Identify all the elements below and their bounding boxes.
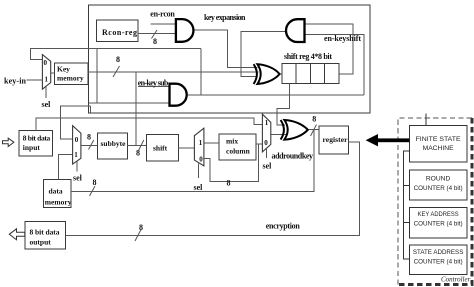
bus slash at mux M2 output bbox=[89, 140, 94, 150]
wire data memory to mux M2 input 1 bbox=[58, 154, 72, 179]
svg-text:Key: Key bbox=[57, 65, 70, 74]
svg-text:memory: memory bbox=[57, 74, 84, 83]
svg-text:8: 8 bbox=[139, 223, 143, 232]
gate AND U1 en-rcon bbox=[176, 19, 194, 42]
port arrow data output bbox=[9, 229, 24, 240]
block key address counter bbox=[409, 208, 466, 238]
svg-text:sel: sel bbox=[73, 174, 83, 183]
wire key-in to mux M1 bbox=[27, 79, 43, 81]
svg-text:register: register bbox=[323, 135, 349, 144]
key expansion outer box bbox=[89, 5, 371, 113]
svg-text:data: data bbox=[49, 187, 63, 196]
svg-text:en-key sub: en-key sub bbox=[138, 79, 169, 88]
wire mux M2 output to subbyte bbox=[81, 145, 98, 147]
svg-text:8: 8 bbox=[93, 178, 97, 187]
wire shift register output to AND U3 top input bbox=[305, 24, 354, 74]
wire XOR U5 output to register bbox=[308, 129, 319, 131]
svg-text:0: 0 bbox=[75, 136, 79, 144]
svg-text:COUNTER (4 bit): COUNTER (4 bit) bbox=[414, 258, 463, 265]
svg-text:8: 8 bbox=[312, 115, 316, 124]
svg-text:mix: mix bbox=[226, 137, 238, 146]
svg-text:Rcon-reg: Rcon-reg bbox=[102, 28, 137, 37]
wire shift to mux M3 bbox=[178, 147, 194, 149]
block subbyte bbox=[98, 133, 128, 159]
block mix column bbox=[219, 134, 256, 160]
svg-text:FINITE STATE: FINITE STATE bbox=[416, 136, 462, 143]
wire feedback rail to mux M1 input 0 bbox=[31, 49, 201, 60]
svg-text:key-in: key-in bbox=[4, 77, 27, 86]
gate AND U3 en-keyshift mirrored bbox=[286, 19, 304, 42]
wire controller bus stub round counter bbox=[404, 185, 410, 187]
controller dashed box thin edges bbox=[398, 118, 472, 285]
svg-text:KEY ADDRESS: KEY ADDRESS bbox=[418, 211, 460, 218]
svg-text:0: 0 bbox=[264, 139, 268, 147]
port 8 bit data input bbox=[19, 130, 52, 156]
svg-text:shift: shift bbox=[153, 144, 168, 153]
gate XOR U4 key schedule bbox=[254, 64, 280, 84]
wire key memory output to XOR U4 bbox=[88, 71, 259, 73]
memory Key memory bbox=[54, 63, 88, 85]
svg-text:memory: memory bbox=[45, 197, 72, 206]
svg-text:input: input bbox=[23, 143, 41, 152]
svg-text:sel: sel bbox=[263, 162, 273, 171]
bus slash at data memory output bbox=[90, 186, 96, 196]
svg-text:subbyte: subbyte bbox=[101, 139, 127, 148]
svg-text:encryption: encryption bbox=[266, 222, 301, 231]
svg-text:COUNTER (4 bit): COUNTER (4 bit) bbox=[414, 185, 463, 192]
svg-text:STATE ADDRESS: STATE ADDRESS bbox=[413, 249, 464, 256]
svg-text:0: 0 bbox=[44, 59, 48, 67]
wire AND U2 output branch up bbox=[200, 49, 202, 96]
port arrow data input bbox=[3, 138, 14, 146]
wire drop from mux M2 feed to box bottom rail bbox=[89, 106, 91, 113]
svg-text:addroundkey: addroundkey bbox=[272, 152, 314, 161]
svg-text:en-rcon: en-rcon bbox=[150, 10, 175, 19]
bus slash at Rcon-reg output bbox=[152, 30, 158, 39]
mux M4 addroundkey select bbox=[262, 114, 270, 152]
bus slash at XOR U5 output bbox=[311, 125, 317, 137]
svg-text:COUNTER (4 bit): COUNTER (4 bit) bbox=[414, 221, 463, 228]
shift register 4x8 bbox=[282, 63, 339, 83]
register Rcon-reg bbox=[97, 20, 139, 42]
mux M1 key select bbox=[42, 55, 50, 90]
wire mux M1 sel stick bbox=[45, 87, 47, 98]
svg-text:1: 1 bbox=[265, 119, 269, 127]
svg-text:key expansion: key expansion bbox=[204, 13, 246, 22]
wire AND U2 output / en-keyshift rail bbox=[187, 94, 364, 96]
wire mux M1 to key memory bbox=[51, 72, 55, 74]
controller dashed box thick edges bbox=[398, 118, 472, 285]
svg-text:1: 1 bbox=[199, 139, 203, 147]
wire mux M2 input 0 feed bbox=[61, 106, 91, 139]
wire controller bus stub key address bbox=[404, 222, 410, 224]
wire subbyte to shift bbox=[128, 144, 147, 146]
svg-text:ROUND: ROUND bbox=[426, 176, 451, 183]
svg-text:8 bit data: 8 bit data bbox=[23, 133, 51, 142]
wire fsm clock stub bbox=[425, 114, 427, 126]
gate AND U2 en-key sub bbox=[170, 84, 187, 106]
mux M2 state select bbox=[73, 126, 81, 164]
wire XOR U4 to shift register bbox=[280, 73, 283, 75]
block shift bbox=[147, 134, 179, 161]
svg-text:8: 8 bbox=[153, 37, 157, 46]
svg-text:Controller: Controller bbox=[441, 276, 471, 284]
register (round register) bbox=[319, 126, 348, 154]
wire AND U3 output to XOR U4 bbox=[241, 32, 286, 77]
wire AND U2 bottom input bbox=[89, 102, 170, 104]
svg-text:1: 1 bbox=[74, 151, 78, 159]
svg-text:8: 8 bbox=[227, 179, 231, 188]
wire data memory read up to register input node bbox=[71, 130, 314, 192]
wire controller bus bbox=[404, 151, 410, 259]
wire mux M3 pin1 to mix column bbox=[204, 142, 219, 144]
svg-text:sel: sel bbox=[194, 183, 204, 192]
wire mux M3 pin0 bypass loop to mux M4 node bbox=[204, 144, 259, 181]
svg-text:en-keyshift: en-keyshift bbox=[324, 34, 361, 43]
block state address counter bbox=[409, 245, 466, 275]
bus slash at data output wire bbox=[135, 230, 141, 242]
wire mux M3 sel stick bbox=[198, 164, 200, 179]
wire AND U1 output to XOR U4 bbox=[193, 30, 257, 67]
svg-text:8: 8 bbox=[116, 55, 120, 64]
wire keymem tap down to subbyte-shift node bbox=[135, 72, 137, 145]
wire mux M2 sel stick bbox=[76, 162, 78, 172]
svg-text:sel: sel bbox=[42, 100, 52, 109]
wire junction riser x97 bbox=[96, 49, 98, 103]
wire data input bypass to mux M4 input 1 bbox=[36, 118, 262, 131]
wire key schedule down to XOR U5 bbox=[277, 83, 290, 125]
gate XOR U5 addroundkey bbox=[281, 120, 308, 140]
bus slash at key memory output bbox=[113, 66, 120, 77]
wire mix column to mux M4 input 0 bbox=[256, 143, 262, 145]
bus slash at subbyte output bbox=[139, 140, 144, 151]
svg-text:8: 8 bbox=[136, 149, 140, 158]
block finite state machine bbox=[409, 126, 466, 163]
svg-text:8 bit data: 8 bit data bbox=[30, 228, 60, 237]
wire Rcon-reg to AND U1 bbox=[138, 33, 176, 35]
svg-text:0: 0 bbox=[199, 156, 203, 164]
wire register output to data output bbox=[66, 142, 360, 236]
svg-text:1: 1 bbox=[45, 75, 49, 83]
wire mux M4 output to XOR U5 bbox=[271, 134, 286, 136]
svg-text:output: output bbox=[30, 238, 52, 247]
wire en-keyshift feed to AND U3 bottom input bbox=[305, 35, 364, 96]
port 8 bit data output bbox=[25, 221, 66, 249]
wire en-rcon input to AND U1 bbox=[150, 23, 176, 25]
svg-text:8: 8 bbox=[87, 133, 91, 142]
memory data memory bbox=[44, 180, 72, 208]
wire mux M4 sel stick bbox=[265, 149, 267, 159]
wire en-key sub input to AND U2 bbox=[138, 86, 170, 88]
block round counter bbox=[409, 170, 466, 200]
control arrow controller to register bbox=[366, 134, 410, 146]
demux M3 mix bypass bbox=[194, 128, 204, 166]
svg-text:shift reg 4*8 bit: shift reg 4*8 bit bbox=[284, 52, 332, 61]
svg-text:MACHINE: MACHINE bbox=[423, 145, 455, 152]
svg-text:column: column bbox=[226, 147, 251, 156]
